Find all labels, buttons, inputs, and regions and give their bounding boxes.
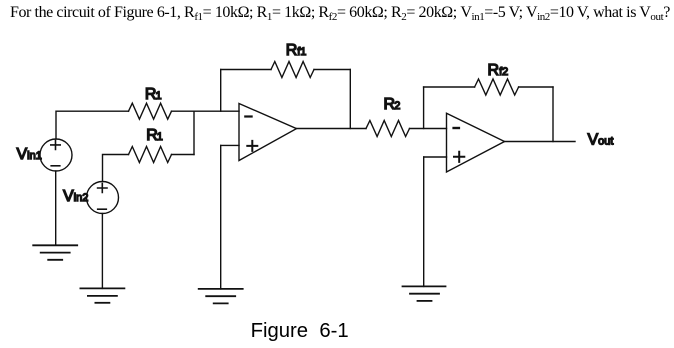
wire U1 non-inverting input [221,144,239,146]
ground (below Vin1) [33,245,77,259]
resistor R2 [366,121,410,137]
ground (below Vin2) [80,288,124,302]
wire Rf1 left [221,69,271,71]
svg-text:R2: R2 [384,96,401,113]
op-amp U1 [239,104,297,161]
wire Rf2 down to U2 output [552,87,554,142]
wire U2 non-inverting input down to ground [423,157,425,286]
wire U2 output to Vout [505,141,576,143]
resistor R1 (top) [129,103,172,119]
wire U1 output to R2 [297,128,367,130]
svg-text:Vout: Vout [588,131,614,148]
node summing junction vertical wire [193,111,195,154]
wire R2 to op-amp U2 inverting input [410,128,447,130]
resistor Rf1 [271,62,314,78]
wire Rf2 right [519,86,553,88]
source Vin2 [87,182,119,214]
resistor Rf2 [475,79,519,95]
svg-text:Vin1: Vin1 [17,146,42,163]
wire Vin2 top to R1 (bottom) [103,155,129,182]
title text [10,4,670,22]
svg-text:Rf2: Rf2 [488,62,509,79]
wire U1 non-inverting input down to ground [220,145,222,289]
resistor R1 (bottom) [129,147,172,163]
wire Vin2 bottom to ground [101,214,103,289]
caption Figure 6-1 [251,320,349,343]
wire Vin1 top to R1 [56,111,129,139]
svg-text:Vin2: Vin2 [63,188,88,205]
svg-text:Rf1: Rf1 [286,42,307,59]
source Vin1 [40,139,72,171]
ground (below op-amp U1) [199,289,243,304]
wire R1 bottom to summing junction [172,154,195,156]
wire Rf2 left [424,86,475,88]
svg-text:R1: R1 [146,127,163,144]
wire Rf1 down to U1 output [349,70,351,129]
wire Rf2 tap up from U2 inverting input [423,87,425,129]
wire R1 top to op-amp U1 inverting input [172,110,240,112]
ground (below op-amp U2) [403,286,446,301]
wire feedback tap up from U1 inverting input [220,70,222,112]
op-amp U2 [447,113,505,172]
svg-text:R1: R1 [145,86,162,103]
wire U2 non-inverting input [424,156,447,158]
wire Vin1 bottom to ground [55,171,57,245]
wire Rf1 right [314,69,350,71]
